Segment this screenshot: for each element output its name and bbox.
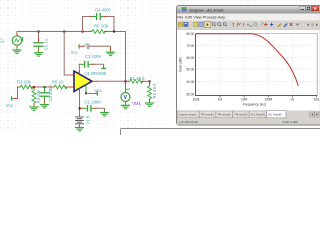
wire: rail right of RF to output corner, down to output node <box>108 32 126 82</box>
svg-text:R2 49.9: R2 49.9 <box>152 83 157 99</box>
resistor RF (on rail) <box>89 30 108 34</box>
svg-text:Vcc: Vcc <box>71 50 79 55</box>
plot area <box>177 30 320 111</box>
wire: input rail from VG1 to feedback <box>17 32 89 36</box>
svg-text:70.00: 70.00 <box>186 44 194 48</box>
ground under R2 <box>146 102 154 107</box>
battery V1 <box>76 117 84 124</box>
svg-text:80.00: 80.00 <box>186 32 194 36</box>
svg-text:VM1: VM1 <box>132 101 141 106</box>
caption buttons <box>300 6 306 10</box>
resistor R3 <box>18 85 35 89</box>
bottom panel window <box>121 129 320 141</box>
svg-text:50.00: 50.00 <box>186 67 194 71</box>
capacitor C3 <box>79 62 94 67</box>
svg-text:10G: 10G <box>313 97 320 101</box>
axis tick marks <box>220 96 316 97</box>
capacitor C1 <box>34 32 43 52</box>
svg-text:Output noise1: Output noise1 <box>179 113 197 117</box>
node junction feedback left <box>82 31 84 33</box>
svg-text:R5 10: R5 10 <box>52 79 64 84</box>
tab strip <box>177 111 320 119</box>
svg-text:1M: 1M <box>218 97 223 101</box>
svg-text:View: View <box>193 16 201 20</box>
svg-text:Edit: Edit <box>185 16 192 20</box>
svg-text:1G: 1G <box>290 97 295 101</box>
svg-text:(-12.480,40.34): (-12.480,40.34) <box>179 120 199 124</box>
svg-text:TR result1: TR result1 <box>201 113 215 117</box>
resistor R5 <box>52 85 69 89</box>
node junction VM1 <box>125 80 127 82</box>
svg-text:AC Amplifi: AC Amplifi <box>268 113 282 117</box>
svg-text:AC Amplif1: AC Amplif1 <box>251 113 266 117</box>
svg-text:Process: Process <box>203 16 217 20</box>
voltmeter VM1 <box>121 81 130 103</box>
pin terminal <box>102 68 106 70</box>
window frame <box>177 6 320 126</box>
svg-text:Vcc: Vcc <box>95 88 103 93</box>
Vcc pin lower-left <box>12 97 18 100</box>
title bar <box>177 6 320 14</box>
jumper J <box>85 44 89 49</box>
svg-text:TR result3: TR result3 <box>234 113 248 117</box>
ground right of jumper <box>107 51 115 56</box>
wire: feedback right vertical <box>106 17 114 32</box>
status bar <box>177 118 320 124</box>
node junction C1/rail <box>38 31 40 33</box>
svg-text:C4 400f: C4 400f <box>95 8 111 13</box>
node junction to inverting input <box>63 31 65 33</box>
svg-text:File: File <box>177 16 183 20</box>
vertical gridlines <box>220 34 316 96</box>
svg-text:60.00: 60.00 <box>186 56 194 60</box>
wire: Vcc pin up to R3 <box>17 87 19 99</box>
toolbar <box>177 21 320 30</box>
wire: C2 right to ground <box>97 108 105 111</box>
svg-text:40.00: 40.00 <box>186 80 194 84</box>
capacitor C4 <box>91 14 107 20</box>
svg-text:TR result2: TR result2 <box>217 113 231 117</box>
svg-text:Help: Help <box>218 16 226 20</box>
svg-text:10M: 10M <box>241 97 248 101</box>
svg-text:Frequency (Hz): Frequency (Hz) <box>243 102 266 106</box>
svg-text:30.00: 30.00 <box>186 93 194 97</box>
svg-text:C2 100n: C2 100n <box>85 99 102 104</box>
resistor R1 <box>127 79 145 83</box>
wire: R5 to non-inverting input <box>68 86 71 88</box>
wire: op-amp top power pin <box>78 64 80 73</box>
ground under R4 <box>30 106 38 110</box>
response curve <box>196 34 298 86</box>
svg-text:C3 100n: C3 100n <box>85 54 102 59</box>
wire: C3 right to pin <box>94 64 104 67</box>
horizontal gridlines <box>196 46 317 82</box>
svg-text:R3 20k: R3 20k <box>17 79 31 84</box>
wire: op-amp output <box>93 80 97 82</box>
node junction C5 <box>44 86 46 88</box>
ground right of C2 <box>101 112 109 116</box>
svg-text:VG1: VG1 <box>0 39 5 44</box>
wire: feedback left vertical <box>83 17 91 32</box>
svg-text:R1 49.9: R1 49.9 <box>130 76 146 81</box>
y axis labels <box>186 32 194 97</box>
node junction C2 <box>79 107 81 109</box>
menu bar <box>177 14 320 21</box>
svg-text:100M: 100M <box>264 97 272 101</box>
svg-text:U1 OPA835: U1 OPA835 <box>85 71 107 76</box>
wire: V+ pin to Vcc terminal <box>86 92 95 94</box>
bias rail <box>34 86 52 88</box>
node junction R4 <box>33 86 35 88</box>
x axis labels <box>192 97 319 101</box>
svg-text:4.04k 9.16M: 4.04k 9.16M <box>282 120 299 124</box>
capacitor C2 <box>81 106 97 111</box>
toolbar icons <box>178 22 318 28</box>
node junction R2 <box>149 80 151 82</box>
svg-text:Gain (dB): Gain (dB) <box>179 57 183 72</box>
svg-text:Vcc: Vcc <box>6 103 14 108</box>
svg-text:RF 10k: RF 10k <box>94 23 109 28</box>
voltage generator VG1 <box>12 33 22 48</box>
op-amp U1 <box>74 71 92 92</box>
svg-text:C1 1u: C1 1u <box>44 38 49 50</box>
resistor R4 (vertical) <box>32 87 36 106</box>
axis frame <box>195 34 197 96</box>
resistor R2 (vertical) <box>148 81 152 102</box>
svg-text:V1 5: V1 5 <box>86 115 91 124</box>
svg-text:100k: 100k <box>192 97 199 101</box>
ground under VM1 <box>122 104 130 109</box>
wire: jumper to ground <box>82 45 85 47</box>
ground under V1 <box>76 128 84 131</box>
op-amp V+ pin on lower edge <box>85 85 87 93</box>
op-amp bottom V- pin wire down <box>79 89 81 92</box>
svg-text:Diagram - AC Ampl1: Diagram - AC Ampl1 <box>190 9 224 13</box>
ground under C5 <box>41 103 49 108</box>
capacitor C5 (vertical) <box>40 87 49 103</box>
svg-text:T: T <box>232 23 235 28</box>
window icon <box>182 7 187 11</box>
ground under VG1 <box>13 48 21 53</box>
node junction feedback right <box>113 31 115 33</box>
ground under C1 <box>35 51 43 56</box>
Vcc jumper pin <box>79 45 82 48</box>
wire: rail down to op-amp inverting input <box>64 32 70 76</box>
